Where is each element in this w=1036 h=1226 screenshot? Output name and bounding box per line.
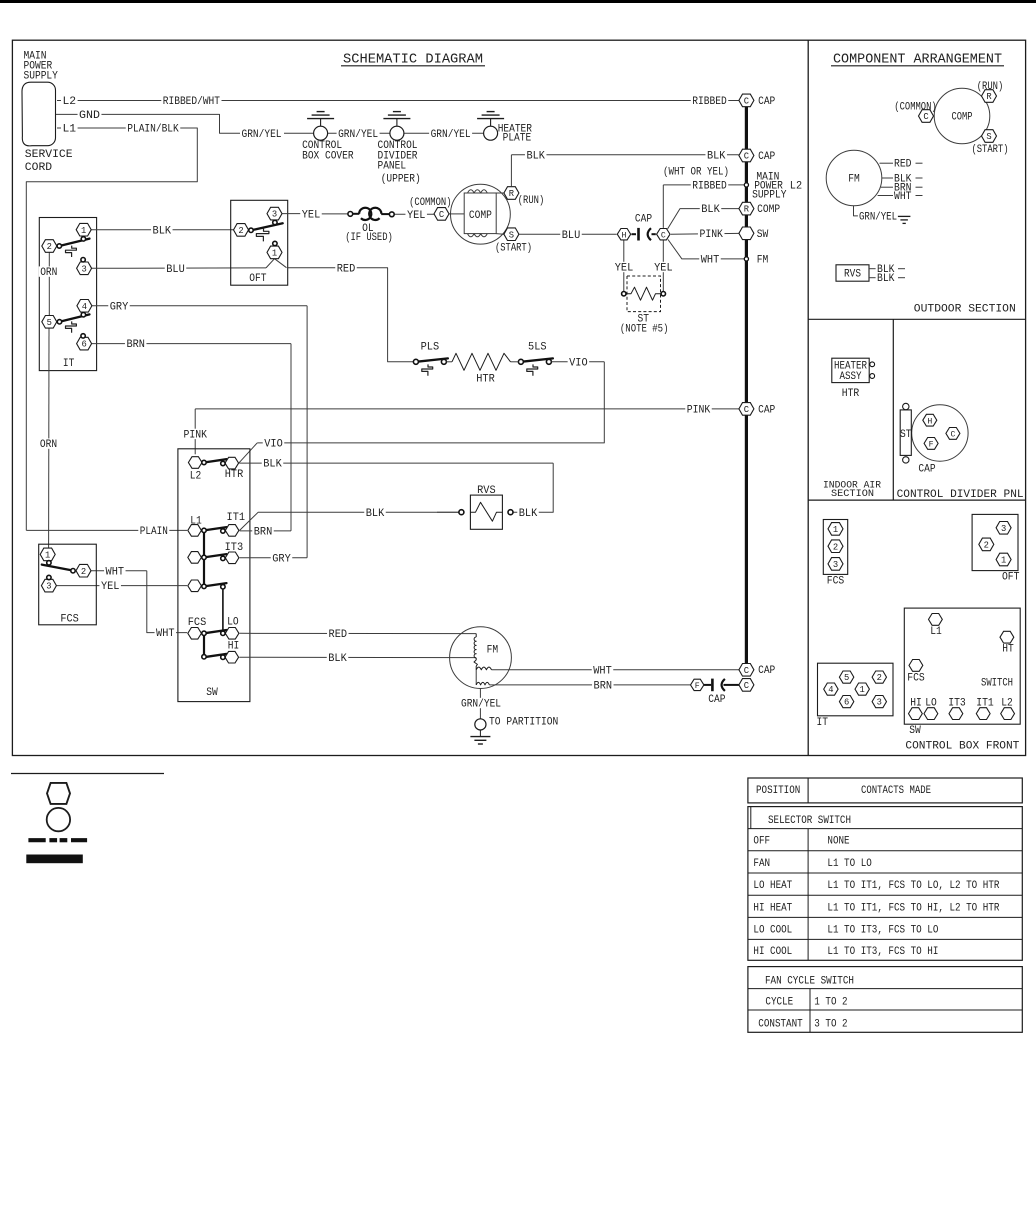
svg-text:3: 3 <box>833 560 838 570</box>
svg-text:RIBBED/WHT: RIBBED/WHT <box>163 96 221 108</box>
svg-text:BLK: BLK <box>366 508 385 520</box>
svg-text:SELECTOR SWITCH: SELECTOR SWITCH <box>768 815 851 827</box>
svg-text:3: 3 <box>877 698 882 708</box>
svg-text:PLAIN: PLAIN <box>140 526 168 538</box>
svg-text:F: F <box>695 682 700 691</box>
svg-text:PINK: PINK <box>699 229 723 241</box>
svg-text:(WHT OR YEL): (WHT OR YEL) <box>663 166 729 178</box>
svg-text:CONSTANT: CONSTANT <box>758 1018 803 1030</box>
svg-text:L1: L1 <box>63 124 77 136</box>
svg-text:GRN/YEL: GRN/YEL <box>859 211 897 223</box>
svg-text:HI COOL: HI COOL <box>753 946 792 958</box>
svg-text:L1 TO IT1, FCS TO HI, L2 TO HT: L1 TO IT1, FCS TO HI, L2 TO HTR <box>827 902 1000 914</box>
svg-text:PINK: PINK <box>687 405 711 417</box>
svg-text:RIBBED: RIBBED <box>692 96 727 108</box>
svg-text:PLS: PLS <box>421 341 440 353</box>
svg-text:LO: LO <box>227 617 239 629</box>
svg-text:YEL: YEL <box>654 263 673 275</box>
svg-text:1: 1 <box>45 551 50 561</box>
svg-text:(RUN): (RUN) <box>977 81 1004 93</box>
svg-text:NONE: NONE <box>827 836 849 848</box>
svg-text:IT: IT <box>63 358 75 370</box>
svg-text:SUPPLY: SUPPLY <box>24 71 59 83</box>
svg-text:CORD: CORD <box>25 162 52 174</box>
svg-text:OUTDOOR SECTION: OUTDOOR SECTION <box>914 304 1016 316</box>
svg-text:PLATE: PLATE <box>503 133 532 145</box>
svg-text:RVS: RVS <box>477 485 496 497</box>
svg-text:RED: RED <box>329 629 348 641</box>
svg-text:RVS: RVS <box>844 269 861 281</box>
svg-text:BLK: BLK <box>526 150 545 162</box>
svg-text:L2: L2 <box>190 470 202 482</box>
svg-text:C: C <box>661 231 666 240</box>
svg-text:L1 TO IT1, FCS TO LO, L2 TO HT: L1 TO IT1, FCS TO LO, L2 TO HTR <box>827 880 1000 892</box>
svg-text:L1 TO IT3, FCS TO LO: L1 TO IT3, FCS TO LO <box>827 924 938 936</box>
svg-text:BLK: BLK <box>328 653 347 665</box>
svg-text:GRN/YEL: GRN/YEL <box>461 699 501 711</box>
svg-text:5: 5 <box>844 673 849 683</box>
svg-text:HTR: HTR <box>476 373 495 385</box>
svg-text:GRN/YEL: GRN/YEL <box>431 129 471 141</box>
svg-text:WHT: WHT <box>701 255 720 267</box>
svg-text:WHT: WHT <box>894 191 912 203</box>
svg-text:CAP: CAP <box>758 151 775 163</box>
svg-text:PANEL: PANEL <box>378 161 407 173</box>
svg-text:(NOTE #5): (NOTE #5) <box>620 324 669 336</box>
svg-text:GRN/YEL: GRN/YEL <box>242 129 282 141</box>
svg-text:S: S <box>509 230 514 240</box>
svg-text:ST: ST <box>900 429 912 441</box>
svg-text:OFT: OFT <box>249 273 267 285</box>
svg-text:RED: RED <box>337 263 356 275</box>
svg-text:6: 6 <box>844 698 849 708</box>
svg-text:CAP: CAP <box>918 463 935 475</box>
svg-text:CAP: CAP <box>758 96 775 108</box>
svg-text:SERVICE: SERVICE <box>25 149 73 161</box>
svg-text:BLU: BLU <box>166 264 185 276</box>
svg-text:4: 4 <box>828 685 833 695</box>
svg-text:CONTACTS MADE: CONTACTS MADE <box>861 785 931 797</box>
svg-text:BLK: BLK <box>263 459 282 471</box>
svg-text:FAN CYCLE SWITCH: FAN CYCLE SWITCH <box>765 975 854 987</box>
svg-text:6: 6 <box>81 340 86 350</box>
svg-text:ASSY: ASSY <box>840 371 863 383</box>
svg-text:1: 1 <box>1001 556 1006 566</box>
svg-text:GRN/YEL: GRN/YEL <box>338 129 378 141</box>
svg-text:LO HEAT: LO HEAT <box>753 880 792 892</box>
svg-text:C: C <box>439 210 444 220</box>
svg-text:FCS: FCS <box>60 613 79 625</box>
svg-text:CYCLE: CYCLE <box>765 997 793 1009</box>
svg-text:BRN: BRN <box>594 681 613 693</box>
svg-text:COMP: COMP <box>952 112 973 124</box>
svg-text:5LS: 5LS <box>528 341 547 353</box>
svg-text:H: H <box>622 231 627 240</box>
svg-text:F: F <box>929 441 934 450</box>
svg-text:LO COOL: LO COOL <box>753 924 792 936</box>
svg-text:SWITCH: SWITCH <box>981 677 1013 689</box>
svg-text:C: C <box>744 666 749 676</box>
svg-text:C: C <box>923 112 928 122</box>
svg-text:ORN: ORN <box>40 267 57 279</box>
svg-text:POSITION: POSITION <box>756 785 800 797</box>
svg-text:1 TO 2: 1 TO 2 <box>814 997 847 1009</box>
svg-text:CAP: CAP <box>758 665 775 677</box>
svg-text:1: 1 <box>860 685 865 695</box>
svg-text:2: 2 <box>877 673 882 683</box>
svg-text:WHT: WHT <box>106 566 125 578</box>
svg-text:YEL: YEL <box>407 210 426 222</box>
svg-text:C: C <box>744 152 749 162</box>
svg-text:BRN: BRN <box>126 339 145 351</box>
svg-text:2: 2 <box>47 242 52 252</box>
svg-text:SECTION: SECTION <box>831 488 874 500</box>
svg-text:3: 3 <box>272 210 277 220</box>
svg-text:OFT: OFT <box>1002 571 1020 583</box>
svg-text:FAN: FAN <box>753 858 770 870</box>
svg-text:HTR: HTR <box>842 388 860 400</box>
svg-text:(UPPER): (UPPER) <box>381 173 421 185</box>
svg-text:WHT: WHT <box>593 665 612 677</box>
svg-text:BLK: BLK <box>701 204 720 216</box>
svg-text:2: 2 <box>238 226 243 236</box>
svg-text:L1 TO IT3, FCS TO HI: L1 TO IT3, FCS TO HI <box>827 946 938 958</box>
svg-text:3: 3 <box>81 264 86 274</box>
svg-text:FCS: FCS <box>827 575 845 587</box>
svg-text:1: 1 <box>272 249 277 259</box>
svg-text:(RUN): (RUN) <box>518 195 545 207</box>
svg-text:FM: FM <box>757 254 769 266</box>
svg-text:PINK: PINK <box>184 430 208 442</box>
svg-text:FM: FM <box>487 644 499 656</box>
svg-text:FCS: FCS <box>188 617 207 629</box>
svg-text:BLU: BLU <box>562 230 581 242</box>
svg-text:CONTROL DIVIDER PNL: CONTROL DIVIDER PNL <box>897 489 1024 501</box>
svg-text:TO PARTITION: TO PARTITION <box>489 717 558 729</box>
svg-text:RIBBED: RIBBED <box>692 181 727 193</box>
svg-text:YEL: YEL <box>302 210 321 222</box>
svg-text:2: 2 <box>81 567 86 577</box>
svg-text:BLK: BLK <box>153 225 172 237</box>
svg-text:IT: IT <box>816 717 828 729</box>
svg-text:1: 1 <box>833 525 838 535</box>
svg-text:ORN: ORN <box>40 439 57 451</box>
svg-text:SUPPLY: SUPPLY <box>752 189 787 201</box>
svg-text:L1: L1 <box>930 626 942 638</box>
svg-text:HTR: HTR <box>225 469 244 481</box>
svg-text:S: S <box>986 132 991 142</box>
svg-text:GND: GND <box>79 110 100 122</box>
svg-text:VIO: VIO <box>264 439 283 451</box>
svg-text:CAP: CAP <box>708 694 725 706</box>
svg-text:2: 2 <box>984 541 989 551</box>
svg-text:OFF: OFF <box>753 836 770 848</box>
svg-text:SW: SW <box>757 229 769 241</box>
svg-text:1: 1 <box>81 226 86 236</box>
svg-text:PLAIN/BLK: PLAIN/BLK <box>127 124 179 136</box>
svg-text:IT3: IT3 <box>225 542 244 554</box>
svg-text:RED: RED <box>894 159 912 171</box>
svg-text:GRY: GRY <box>110 301 129 313</box>
svg-text:VIO: VIO <box>569 357 588 369</box>
svg-text:C: C <box>744 681 749 691</box>
svg-text:3: 3 <box>46 582 51 592</box>
svg-text:4: 4 <box>82 302 87 312</box>
svg-text:COMP: COMP <box>757 204 780 216</box>
svg-text:HT: HT <box>1002 644 1014 656</box>
svg-text:L1 TO LO: L1 TO LO <box>827 858 871 870</box>
svg-text:(START): (START) <box>495 243 532 255</box>
svg-text:BLK: BLK <box>707 150 726 162</box>
svg-text:R: R <box>509 189 515 199</box>
svg-text:SW: SW <box>206 687 218 699</box>
svg-text:BLK: BLK <box>877 273 895 285</box>
svg-text:COMP: COMP <box>469 210 492 222</box>
svg-text:CAP: CAP <box>635 214 652 226</box>
svg-text:R: R <box>986 92 992 102</box>
svg-text:CONTROL BOX FRONT: CONTROL BOX FRONT <box>905 741 1019 753</box>
svg-text:WHT: WHT <box>156 628 175 640</box>
svg-text:YEL: YEL <box>615 263 634 275</box>
svg-text:C: C <box>744 97 749 107</box>
svg-text:CAP: CAP <box>758 404 775 416</box>
svg-text:HI HEAT: HI HEAT <box>753 902 792 914</box>
svg-text:L2: L2 <box>790 180 802 192</box>
svg-text:L2: L2 <box>63 96 77 108</box>
svg-text:BOX COVER: BOX COVER <box>302 150 354 162</box>
svg-text:L1: L1 <box>190 515 202 527</box>
svg-text:FCS: FCS <box>907 673 925 685</box>
svg-text:3 TO 2: 3 TO 2 <box>814 1018 847 1030</box>
svg-text:(START): (START) <box>971 144 1008 156</box>
svg-text:C: C <box>744 405 749 415</box>
svg-text:BRN: BRN <box>254 527 273 539</box>
svg-text:IT1: IT1 <box>227 512 246 524</box>
svg-text:SW: SW <box>909 725 921 737</box>
svg-text:3: 3 <box>1001 524 1006 534</box>
svg-text:HI: HI <box>228 641 240 653</box>
svg-text:YEL: YEL <box>101 581 120 593</box>
svg-text:(COMMON): (COMMON) <box>894 102 936 114</box>
svg-text:(IF USED): (IF USED) <box>345 232 393 244</box>
svg-text:C: C <box>950 431 955 440</box>
svg-text:FM: FM <box>848 174 860 186</box>
svg-text:2: 2 <box>833 542 838 552</box>
svg-text:H: H <box>927 417 932 426</box>
svg-text:GRY: GRY <box>272 553 291 565</box>
svg-text:BLK: BLK <box>519 508 538 520</box>
svg-text:5: 5 <box>47 318 52 328</box>
svg-text:R: R <box>744 205 750 215</box>
